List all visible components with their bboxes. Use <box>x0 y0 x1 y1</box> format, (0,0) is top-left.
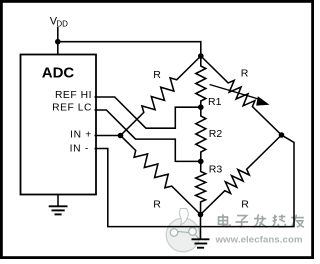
svg-text:IN -: IN - <box>70 144 89 155</box>
svg-text:R: R <box>153 199 161 211</box>
svg-text:R1: R1 <box>208 96 222 108</box>
svg-text:www.elecfans.com: www.elecfans.com <box>215 235 303 246</box>
svg-text:DD: DD <box>56 19 68 28</box>
svg-text:REF HI: REF HI <box>55 90 92 101</box>
svg-text:ADC: ADC <box>42 65 75 82</box>
svg-text:R: R <box>153 69 161 81</box>
svg-text:REF LC: REF LC <box>52 102 92 113</box>
svg-text:IN +: IN + <box>70 129 92 140</box>
svg-text:R2: R2 <box>209 128 223 140</box>
svg-text:R: R <box>241 199 249 211</box>
svg-text:R: R <box>241 68 249 80</box>
svg-text:R3: R3 <box>209 164 223 176</box>
